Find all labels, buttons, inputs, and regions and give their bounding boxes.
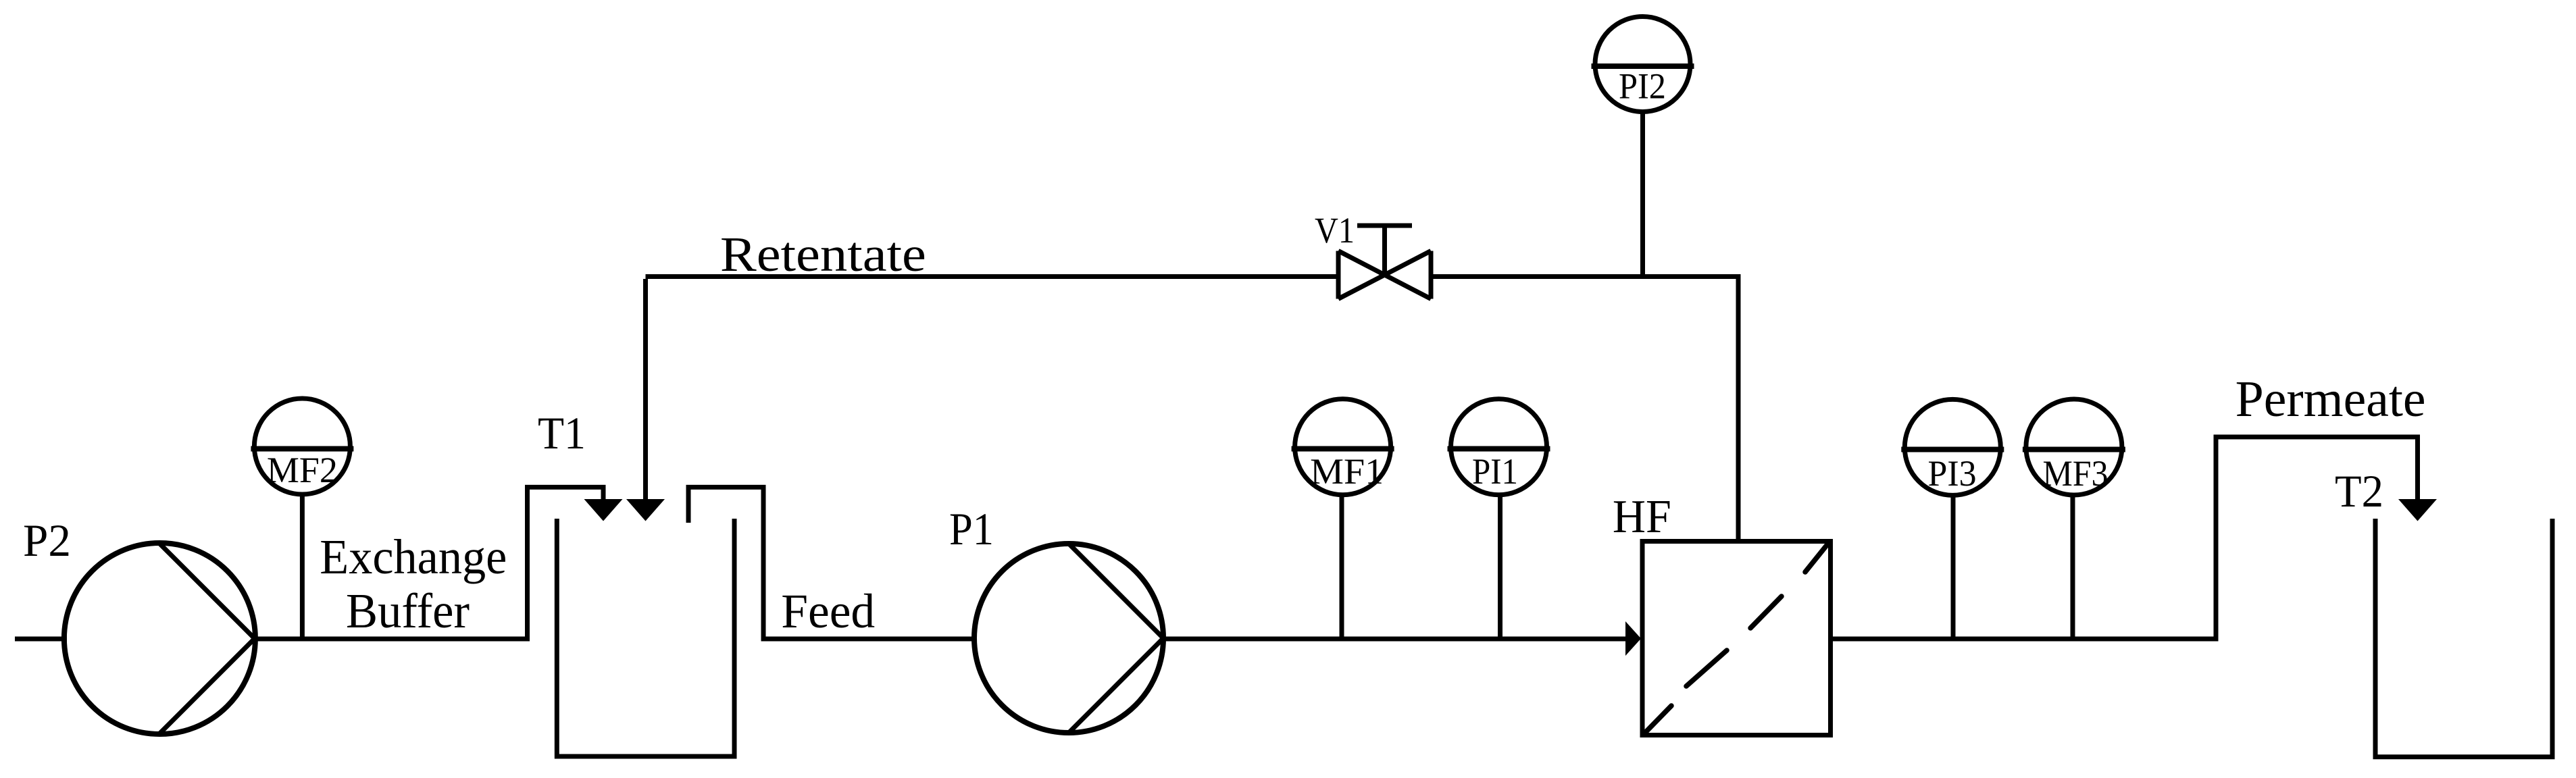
arrow: permeate into T2 (2398, 499, 2437, 521)
pump P2 (64, 543, 255, 734)
pipe: suction stub into pump P2 (15, 637, 67, 642)
gauge PI1 (1448, 399, 1550, 639)
pipe: P2 discharge up and over into tank T1 (255, 487, 603, 639)
svg-text:MF2: MF2 (267, 450, 338, 490)
pipe: retentate line from HF top through valve V1 to T1 (646, 277, 1739, 542)
svg-text:T2: T2 (2335, 465, 2383, 517)
membrane module HF (1642, 542, 1831, 735)
svg-text:PI2: PI2 (1619, 66, 1666, 107)
svg-text:Buffer: Buffer (346, 583, 470, 638)
tank T2 (2375, 519, 2552, 757)
svg-text:PI3: PI3 (1928, 453, 1977, 494)
arrow: exchange buffer inlet into T1 (584, 499, 623, 521)
svg-text:T1: T1 (538, 407, 586, 459)
pipe: permeate line from HF to tank T2 (1831, 437, 2418, 639)
gauge PI3 (1901, 399, 2004, 639)
arrow: retentate into T1 (626, 499, 665, 521)
svg-text:Permeate: Permeate (2236, 371, 2426, 427)
svg-text:MF3: MF3 (2043, 453, 2108, 494)
svg-text:MF1: MF1 (1310, 451, 1384, 492)
svg-text:P1: P1 (949, 503, 994, 554)
tank T1 (557, 519, 734, 756)
gauge MF2 (251, 398, 353, 639)
pipe: P1 discharge to HF module (1163, 637, 1626, 642)
pipe: T1 outlet feed line to pump P1 (688, 487, 974, 639)
svg-text:Exchange: Exchange (320, 529, 507, 584)
svg-text:HF: HF (1613, 491, 1671, 543)
gauge PI2 (1592, 17, 1694, 277)
gauge MF3 (2023, 399, 2125, 639)
pipe: retentate downcomer into T1 (643, 279, 648, 500)
valve V1 (1338, 226, 1431, 299)
arrow: feed into HF module (1625, 621, 1641, 656)
svg-text:Feed: Feed (781, 584, 875, 638)
svg-text:Retentate: Retentate (720, 227, 926, 282)
label Exchange Buffer (320, 529, 507, 638)
svg-text:P2: P2 (23, 515, 71, 566)
svg-text:V1: V1 (1315, 210, 1355, 251)
gauge MF1 (1292, 399, 1394, 639)
pump P1 (974, 544, 1163, 733)
svg-text:PI1: PI1 (1472, 451, 1518, 492)
